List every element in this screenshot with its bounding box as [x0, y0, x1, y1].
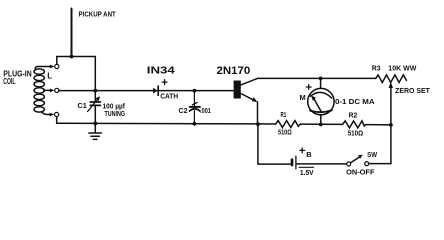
wire top-left horizontal [57, 56, 96, 58]
capacitor C2 [190, 103, 200, 112]
svg-text:B: B [306, 150, 312, 159]
switch SW left contact [347, 162, 351, 166]
wire C1 bottom lead [94, 105, 96, 123]
wire right rail down to switch [390, 125, 392, 164]
capacitor C1 arrow [88, 99, 98, 111]
R3 wiper arrow stem [390, 87, 392, 125]
transistor Q1 collector lead [241, 78, 258, 85]
wire switch to right rail [369, 163, 391, 165]
svg-text:CATH: CATH [160, 92, 178, 101]
resistor R1 zigzag [276, 121, 301, 128]
node emitter-battery junction [256, 122, 260, 126]
R3 wiper arrowhead [389, 82, 393, 88]
svg-text:SW: SW [367, 150, 378, 159]
wire coil bottom to ground rail [56, 117, 58, 124]
capacitor C1 variable plates [90, 101, 100, 103]
wire bottom rail mid segment [301, 123, 343, 125]
svg-text:1.5V: 1.5V [300, 168, 314, 177]
node R2 right junction [389, 123, 393, 127]
diode D1 cathode bar [157, 86, 159, 95]
wire middle horizontal tuned circuit to base [59, 90, 153, 92]
wire top rail collector to R3 [258, 77, 376, 79]
svg-text:C1: C1 [77, 101, 86, 110]
coil middle tap wire [44, 89, 50, 91]
svg-text:PICKUP ANT: PICKUP ANT [79, 10, 117, 19]
svg-text:COIL: COIL [3, 77, 15, 86]
coil bottom terminal circle [55, 112, 59, 116]
coil bottom plug arrow [50, 113, 55, 117]
transistor Q1 emitter arrow [252, 97, 258, 102]
coil top terminal circle [55, 64, 59, 68]
svg-text:TUNING: TUNING [105, 109, 126, 118]
coil middle plug arrow [50, 89, 55, 93]
node ground junction [93, 122, 97, 126]
coil bottom tap wire [41, 112, 49, 115]
ground [89, 123, 102, 139]
svg-text:IN34: IN34 [147, 66, 175, 77]
battery polarity plus [300, 148, 305, 153]
svg-text:10K WW: 10K WW [388, 64, 417, 73]
wire battery loop left [258, 124, 291, 164]
battery label separator line [299, 166, 314, 168]
svg-text:M: M [300, 93, 306, 102]
transistor Q1 2N170 base bar [234, 81, 241, 99]
svg-text:510Ω: 510Ω [348, 129, 364, 138]
svg-text:ON-OFF: ON-OFF [346, 168, 375, 177]
wire battery to switch [297, 163, 347, 165]
wire meter bottom stub [320, 115, 322, 125]
transistor Q1 emitter lead [241, 94, 254, 101]
antenna PICKUP ANT lead [71, 9, 73, 57]
battery B negative plate [291, 160, 294, 165]
wire meter top stub [320, 78, 322, 88]
coil middle terminal circle [55, 88, 59, 92]
switch SW arm arrow [358, 155, 363, 159]
battery B positive plate [295, 156, 297, 169]
node C1 top junction [93, 89, 97, 93]
diode D1 1N34 anode triangle [153, 88, 158, 94]
svg-text:ZERO SET: ZERO SET [395, 86, 430, 95]
wire C1 vertical from top rail [94, 57, 96, 102]
meter M body [308, 88, 334, 114]
inductor L plug-in coil [34, 67, 50, 113]
node meter bottom junction [319, 123, 323, 127]
resistor R3 zigzag [376, 75, 407, 83]
meter polarity plus [306, 85, 311, 90]
svg-text:C2: C2 [179, 106, 188, 115]
svg-text:R2: R2 [349, 111, 358, 120]
wire emitter down [257, 102, 259, 124]
svg-text:R3: R3 [372, 64, 381, 73]
wire bottom rail left segment [57, 122, 276, 125]
wire stub to coil top terminal [56, 57, 58, 65]
svg-text:R1: R1 [281, 110, 287, 119]
wire C2 bottom lead [193, 111, 195, 124]
coil top plug arrow [50, 65, 55, 69]
switch SW right contact [365, 162, 369, 166]
svg-text:2N170: 2N170 [217, 65, 251, 77]
wire bottom rail right segment [366, 124, 391, 126]
svg-text:.001: .001 [200, 106, 211, 115]
wire C2 top lead [193, 91, 195, 107]
node meter top junction [319, 77, 323, 81]
diode D1 polarity plus [162, 80, 167, 85]
svg-text:510Ω: 510Ω [278, 128, 292, 137]
node C2 top junction [193, 89, 197, 93]
node antenna junction [70, 55, 74, 59]
resistor R2 zigzag [343, 121, 366, 128]
svg-text:0-1 DC MA: 0-1 DC MA [335, 97, 375, 106]
node C2 bottom junction [193, 122, 197, 126]
switch SW arm [351, 157, 360, 163]
svg-text:L: L [47, 71, 52, 80]
